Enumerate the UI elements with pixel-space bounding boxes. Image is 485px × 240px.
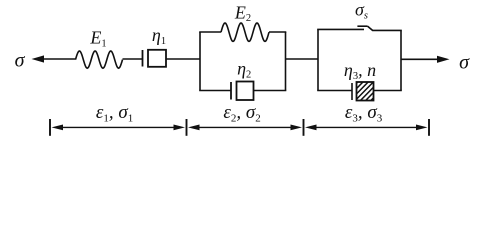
wire: top branch lead-out: [269, 31, 286, 33]
wire: plastic branch lead-in: [317, 90, 352, 92]
dimension arrow epsilon3,sigma3: [305, 125, 428, 131]
spring E2: [221, 23, 269, 41]
svg-text:σ: σ: [459, 52, 470, 74]
dashpot eta3 (hatched viscoplastic element): [333, 80, 407, 103]
svg-text:η2: η2: [237, 59, 251, 81]
svg-text:E2: E2: [234, 2, 251, 24]
wire: bottom branch lead-in: [199, 90, 231, 92]
dimension tick 2: [186, 119, 188, 136]
wire: [166, 58, 200, 60]
wire: top branch lead-in: [199, 31, 221, 33]
wire: right block left vertical: [317, 29, 319, 90]
slider sigma_s (St Venant friction element): [317, 26, 402, 30]
svg-text:ε3, σ3: ε3, σ3: [345, 102, 383, 125]
svg-text:ε2, σ2: ε2, σ2: [223, 102, 260, 125]
stress arrow right: [401, 56, 450, 63]
wire: plastic branch lead-out: [374, 90, 402, 92]
wire: [123, 58, 143, 60]
wire: [286, 58, 319, 60]
spring E1: [76, 51, 123, 68]
svg-text:E1: E1: [89, 28, 106, 50]
svg-text:η3, n: η3, n: [344, 60, 376, 82]
svg-text:σs: σs: [355, 0, 368, 22]
dashpot eta2 (piston plate + cylinder): [231, 82, 254, 101]
wire: bottom branch lead-out: [254, 90, 287, 92]
dashpot eta1 (piston plate + cylinder): [143, 50, 167, 67]
dimension tick 1: [49, 119, 51, 136]
dimension tick 3: [303, 119, 305, 136]
dimension arrow epsilon1,sigma1: [52, 125, 186, 131]
wire: Kelvin block right vertical: [285, 32, 287, 91]
svg-text:ε1, σ1: ε1, σ1: [96, 102, 133, 125]
svg-text:σ: σ: [15, 50, 26, 72]
svg-text:η1: η1: [152, 25, 166, 47]
stress arrow left: [32, 55, 76, 62]
wire: Kelvin block left vertical: [199, 32, 201, 91]
wire: right block right vertical: [400, 30, 402, 90]
dimension tick 4: [428, 119, 430, 136]
dimension arrow epsilon2,sigma2: [188, 125, 302, 131]
